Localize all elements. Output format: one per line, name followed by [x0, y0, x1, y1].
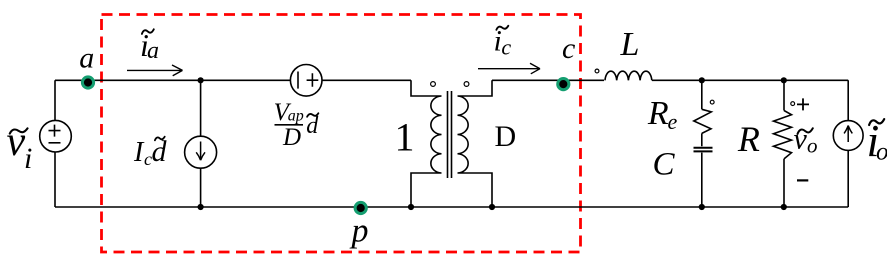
transformer primary winding [411, 80, 442, 207]
wire io branch [847, 80, 849, 207]
current source Ic d circle [185, 136, 217, 168]
wire top rail right [652, 79, 848, 81]
svg-text:R: R [737, 119, 760, 159]
svg-text:D: D [282, 124, 301, 151]
node c [558, 79, 569, 90]
inductor L winding [605, 71, 652, 80]
transformer secondary winding [458, 80, 493, 207]
wire top rail mid [322, 79, 411, 81]
junction transformer primary bottom [408, 204, 414, 210]
svg-text:a: a [79, 42, 94, 75]
label vo [794, 123, 818, 158]
svg-text:L: L [620, 26, 640, 63]
junction bottom of Ic branch [198, 204, 204, 210]
source vi circle [40, 120, 72, 152]
wire R branch [783, 80, 785, 207]
wire left source branch [54, 80, 56, 207]
transformer secondary polarity dot [464, 82, 469, 87]
junction Re branch bottom [699, 204, 705, 210]
junction R branch bottom [781, 204, 787, 210]
transformer core [448, 91, 452, 178]
svg-text:c: c [501, 35, 511, 60]
junction transformer secondary bottom [489, 204, 495, 210]
label Re [647, 95, 678, 134]
wire Ic-source branch [200, 80, 202, 207]
series source minus bar [297, 72, 299, 89]
svg-text:v: v [794, 123, 808, 156]
transformer primary polarity dot [431, 82, 436, 87]
junction R branch top [781, 77, 787, 83]
inductor polarity dot [595, 69, 599, 73]
junction top of Ic branch [198, 77, 204, 83]
label ia [140, 27, 159, 64]
current arrow ia [127, 65, 183, 76]
svg-text:C: C [653, 147, 676, 183]
svg-text:o: o [807, 133, 818, 157]
capacitor C plates [694, 148, 713, 152]
resistor Re zigzag [694, 109, 712, 133]
svg-text:c: c [562, 32, 575, 65]
node p [355, 202, 366, 213]
svg-text:o: o [876, 138, 887, 165]
label ic [494, 24, 512, 59]
resistor Re polarity dot [710, 100, 714, 104]
svg-text:d: d [152, 135, 168, 168]
svg-text:ap: ap [288, 107, 304, 124]
resistor R polarity dot [791, 102, 795, 106]
label io [867, 115, 887, 166]
label vo plus [797, 98, 809, 110]
label Vap/D d [274, 99, 320, 151]
svg-text:e: e [668, 109, 678, 134]
current source Ic d arrow [196, 142, 205, 161]
svg-text:d: d [306, 113, 319, 139]
resistor R zigzag [774, 111, 792, 159]
node a [82, 77, 93, 88]
wire Re-C branch [701, 80, 703, 207]
svg-text:p: p [350, 213, 369, 250]
series source plus [307, 73, 319, 87]
label Ic d [133, 135, 168, 169]
label vo minus [797, 179, 808, 181]
svg-text:i: i [24, 142, 32, 175]
svg-text:v: v [7, 119, 26, 165]
source vi minus [49, 142, 61, 144]
series source Vap/D d circle [290, 65, 322, 97]
wire top rail right of transformer [492, 79, 604, 81]
red dashed boundary box [102, 15, 581, 253]
wire bottom rail [55, 206, 848, 208]
svg-text:D: D [495, 120, 517, 153]
svg-text:a: a [147, 38, 159, 64]
current arrow ic [478, 63, 540, 74]
source vi plus [49, 125, 61, 137]
current source io circle [833, 121, 863, 151]
current source io arrow [844, 126, 852, 143]
label vi [7, 119, 33, 175]
svg-text:1: 1 [395, 115, 415, 160]
wire top rail left [55, 79, 290, 81]
junction Re branch top [699, 77, 705, 83]
svg-text:R: R [647, 95, 669, 132]
